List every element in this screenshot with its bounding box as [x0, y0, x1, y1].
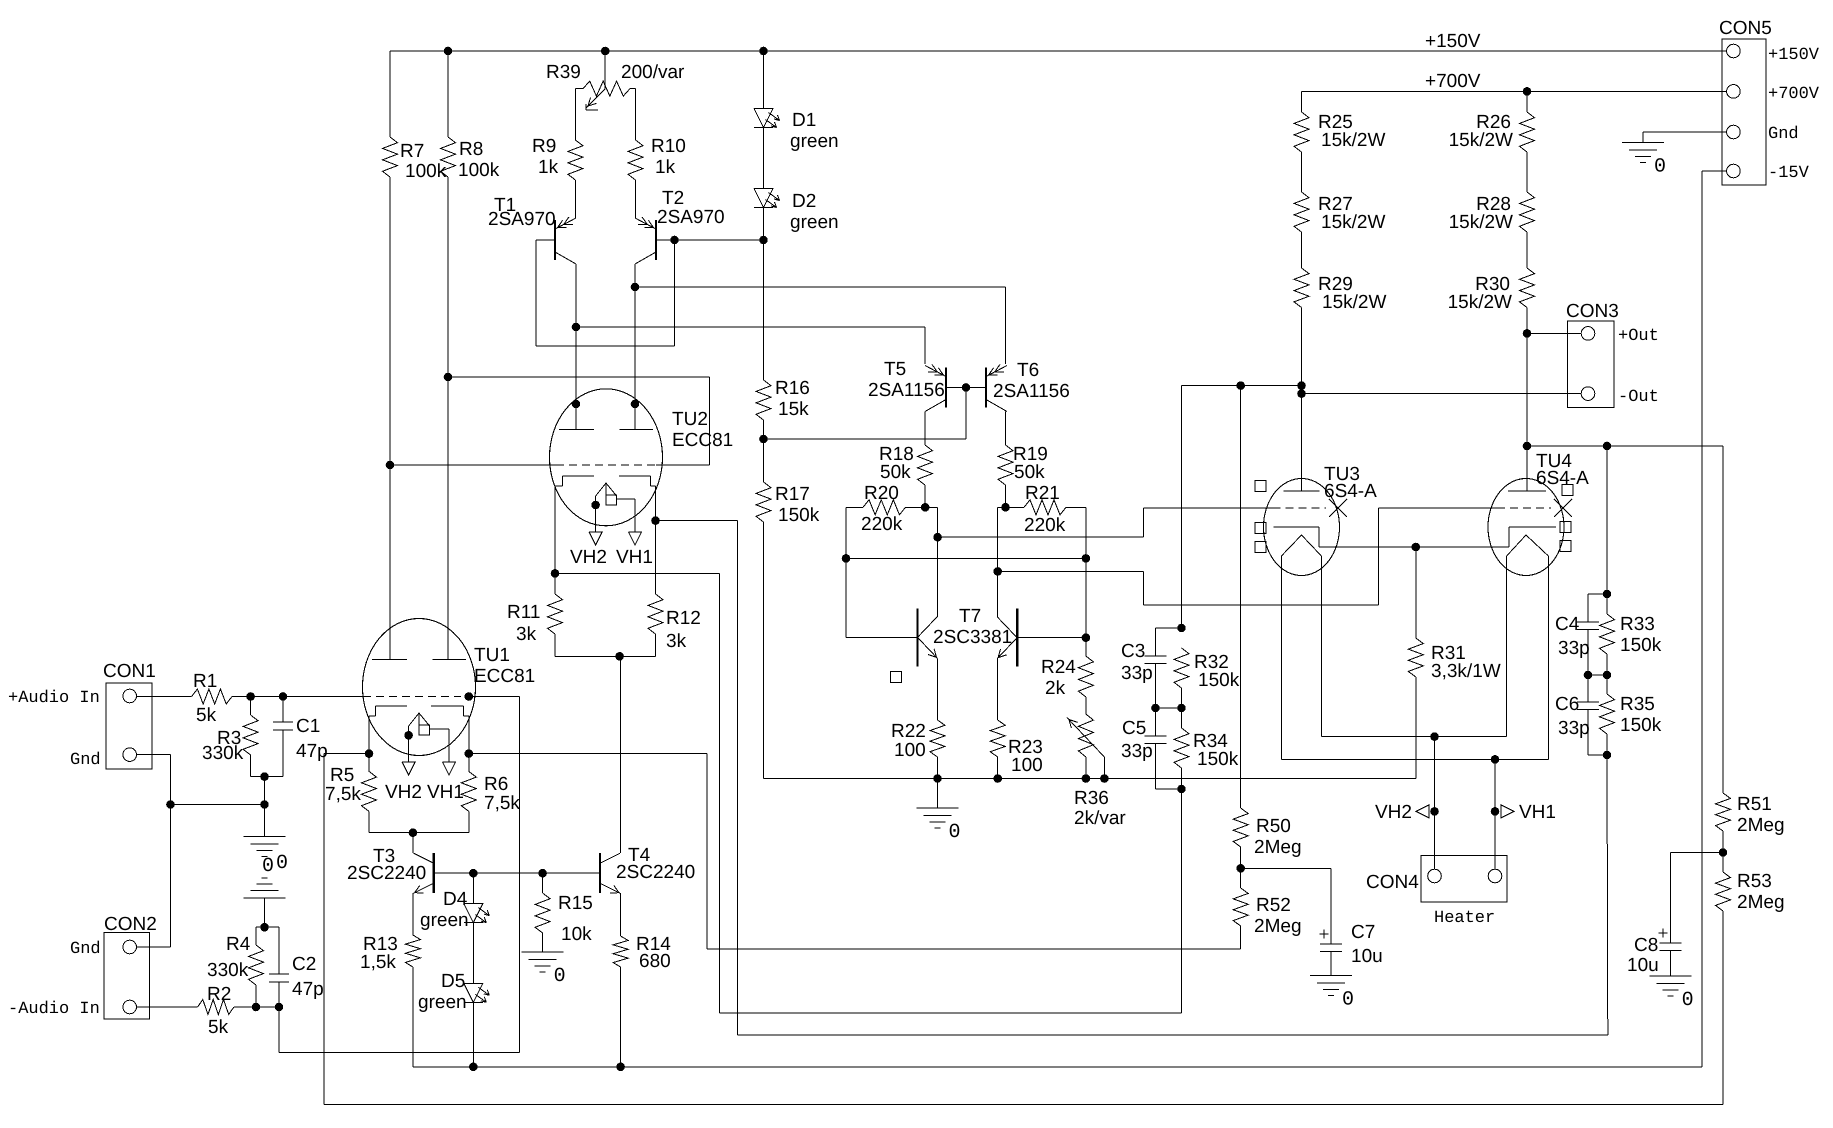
svg-text:VH1: VH1	[1519, 802, 1556, 823]
wire R50R52 to C7	[1241, 868, 1331, 944]
ground 0 C7	[1310, 976, 1354, 1012]
wire +Out	[1527, 332, 1581, 334]
wire heater TU3R to TU4L	[1321, 556, 1506, 737]
svg-text:-15V: -15V	[1768, 164, 1810, 183]
resistor R21	[1006, 483, 1086, 536]
svg-text:Heater: Heater	[1434, 909, 1495, 928]
wire T5 collector to R18	[924, 412, 926, 446]
svg-text:+700V: +700V	[1768, 85, 1820, 104]
svg-text:0: 0	[949, 821, 961, 844]
wire T7R col to TU4 grid	[998, 508, 1497, 605]
connector CON3	[1566, 301, 1619, 408]
svg-text:R39: R39	[546, 62, 581, 83]
node R3 top	[246, 692, 255, 701]
wire R17 to gnd rail	[763, 522, 765, 779]
wire TU2 cathode L to R11	[554, 486, 556, 573]
resistor R7	[383, 51, 447, 182]
node T3 collector tap	[409, 828, 418, 837]
svg-text:2Meg: 2Meg	[1254, 916, 1302, 937]
node LED chain T2 base	[759, 236, 768, 245]
node TU1 grid right	[465, 692, 474, 701]
resistor R16	[756, 378, 810, 420]
ground 0 CON5	[1622, 143, 1666, 179]
capacitor C2	[269, 927, 324, 1052]
svg-text:D5: D5	[441, 971, 465, 992]
svg-text:R35: R35	[1620, 694, 1655, 715]
svg-text:TU1: TU1	[474, 645, 510, 666]
node +150V R39 tap	[601, 47, 610, 56]
transistor T7 2SC3381 right half	[997, 609, 1017, 667]
node div mid cap R	[1584, 671, 1593, 680]
label +Out	[1618, 327, 1659, 346]
svg-text:0: 0	[262, 855, 274, 878]
resistor R36 2k/var	[1067, 714, 1126, 829]
svg-text:150k: 150k	[1197, 749, 1239, 770]
wire VH2 drop	[1434, 737, 1436, 870]
resistor R3	[202, 697, 258, 777]
label +Audio In	[8, 689, 100, 708]
connector CON4	[1366, 856, 1507, 902]
svg-text:R51: R51	[1737, 794, 1772, 815]
svg-text:5k: 5k	[208, 1017, 229, 1038]
svg-text:1,5k: 1,5k	[360, 952, 396, 973]
svg-text:C2: C2	[292, 954, 316, 975]
wire C2 to TU1 grid riser	[279, 697, 519, 1053]
svg-text:2Meg: 2Meg	[1737, 815, 1785, 836]
wire TU1 cathodeL to bottom bus	[324, 754, 1723, 1105]
tube TU1 heater	[409, 713, 430, 735]
resistor R53	[1716, 853, 1785, 1105]
node R4 bottom	[252, 1003, 261, 1012]
node TU2 plate L	[572, 400, 581, 409]
node R23 rail	[993, 774, 1002, 783]
node T1 col to T5	[572, 323, 581, 332]
node R14 neg rail	[616, 1063, 625, 1072]
svg-text:R15: R15	[558, 893, 593, 914]
wire R32 top node	[1181, 386, 1183, 628]
svg-text:15k/2W: 15k/2W	[1448, 292, 1512, 313]
wire R23 to rail	[997, 757, 999, 779]
transistor T5 2SA1156	[868, 359, 946, 412]
resistor R25	[1294, 91, 1385, 152]
wire R21R col down	[1085, 507, 1087, 656]
svg-text:150k: 150k	[1620, 635, 1662, 656]
transistor T4 2SC2240	[600, 845, 695, 893]
node R31 top	[1412, 543, 1421, 552]
wire R8 to TU1 plate	[447, 177, 449, 659]
tube TU2 heater	[596, 483, 617, 505]
svg-text:1k: 1k	[538, 157, 559, 178]
node C4 top tap	[1603, 442, 1612, 451]
svg-text:2k/var: 2k/var	[1074, 808, 1126, 829]
svg-text:D1: D1	[792, 110, 816, 131]
resistor R29	[1294, 232, 1386, 313]
svg-text:220k: 220k	[861, 514, 903, 535]
node divider top R	[1603, 590, 1612, 599]
wire R29 to TU3 plate	[1301, 308, 1303, 492]
svg-text:-Audio In: -Audio In	[8, 1000, 100, 1019]
node TU4 plate	[1523, 442, 1532, 451]
node R18 R20 junction	[921, 503, 930, 512]
svg-text:T6: T6	[1017, 360, 1039, 381]
wire T1col to T5 emitter	[576, 327, 925, 364]
svg-text:R20: R20	[864, 483, 899, 504]
resistor R13	[360, 934, 420, 973]
svg-text:2k: 2k	[1045, 678, 1066, 699]
svg-text:Gnd: Gnd	[70, 751, 101, 770]
node R50 top	[1236, 381, 1245, 390]
svg-text:+700V: +700V	[1425, 71, 1481, 92]
node gnd stub	[260, 800, 269, 809]
wire R16 R17	[763, 420, 765, 482]
node T7L collector tap	[933, 533, 942, 542]
transistor T1 2SA970	[488, 195, 576, 264]
wire R10 to T2 emitter	[635, 180, 637, 218]
tube TU2 grid	[390, 464, 710, 466]
pin VH1 marker	[1491, 802, 1556, 823]
svg-text:C5: C5	[1122, 718, 1146, 739]
svg-text:R11: R11	[507, 602, 540, 623]
svg-text:150k: 150k	[1620, 715, 1662, 736]
wire TU2 heater leads	[596, 496, 635, 532]
wire T4 collector	[620, 656, 622, 853]
diode D1 green LED	[754, 51, 839, 152]
svg-text:TU2: TU2	[672, 409, 708, 430]
svg-text:0: 0	[1654, 156, 1666, 179]
node T5T6 base	[962, 383, 971, 392]
resistor R15	[535, 873, 593, 952]
node div mid res R	[1603, 671, 1612, 680]
svg-text:680: 680	[639, 951, 671, 972]
node T4 collector junction	[615, 652, 624, 661]
pin VH1 arrow TU2	[616, 532, 653, 568]
node D4 top	[469, 869, 478, 878]
node div mid cap L	[1151, 704, 1160, 713]
wire R51 top	[1722, 446, 1724, 793]
svg-text:C7: C7	[1351, 922, 1375, 943]
transistor T7 2SC3381 left half	[918, 606, 1013, 666]
tube TU4 grid	[1497, 507, 1551, 509]
tube TU4 cathode	[1509, 527, 1556, 547]
tube TU4 heater	[1507, 535, 1549, 556]
svg-text:15k/2W: 15k/2W	[1321, 130, 1385, 151]
svg-text:R21: R21	[1025, 483, 1060, 504]
tube TU3 cathode	[1274, 527, 1320, 547]
node heater VH1 tap	[1491, 755, 1500, 764]
node CON gnd join	[166, 800, 175, 809]
transistor T2 2SA970	[635, 188, 725, 264]
svg-text:2SC2240: 2SC2240	[616, 862, 695, 883]
resistor R32	[1174, 648, 1240, 708]
pin VH1 arrow TU1	[427, 762, 464, 803]
svg-text:0: 0	[1342, 989, 1354, 1012]
tube TU1 cathodes	[369, 706, 469, 716]
tube TU1 plates	[372, 658, 466, 660]
tube TU2 envelope	[550, 389, 663, 526]
ground 0 main rail	[917, 779, 961, 845]
label CON5 +150V	[1768, 46, 1820, 65]
resistor R34	[1174, 708, 1239, 789]
tube TU4 grid nc X	[1554, 499, 1572, 517]
wire R12 top to fb	[656, 521, 1608, 1035]
node TU2 plate R	[631, 400, 640, 409]
label CON2 Gnd	[70, 940, 101, 959]
resistor R35	[1600, 675, 1662, 755]
resistor R26	[1449, 91, 1535, 152]
pin marker square T7	[891, 672, 902, 683]
tube TU1 envelope	[363, 619, 476, 756]
svg-text:CON3: CON3	[1566, 301, 1619, 322]
svg-text:R1: R1	[193, 671, 217, 692]
label -Audio In	[8, 1000, 100, 1019]
svg-text:47p: 47p	[296, 741, 328, 762]
svg-text:ECC81: ECC81	[474, 666, 535, 687]
svg-text:10u: 10u	[1351, 946, 1383, 967]
svg-text:330k: 330k	[202, 743, 244, 764]
resistor R8	[441, 51, 500, 181]
svg-text:150k: 150k	[1198, 670, 1240, 691]
label -Out	[1618, 388, 1659, 407]
wire T2col to T6 emitter	[635, 287, 1006, 364]
svg-text:ECC81: ECC81	[672, 430, 733, 451]
svg-text:R53: R53	[1737, 871, 1772, 892]
ground 0 inverted	[244, 852, 289, 898]
tube TU3 plate	[1284, 490, 1320, 492]
wire R7 to TU1 plate	[389, 177, 391, 659]
svg-text:R50: R50	[1256, 816, 1291, 837]
svg-text:2SA1156: 2SA1156	[868, 380, 945, 401]
resistor R9	[532, 136, 583, 180]
resistor R19	[998, 444, 1048, 485]
svg-text:R17: R17	[775, 484, 810, 505]
wire R1 to TU1 grid	[232, 696, 363, 698]
wire VH1 drop	[1494, 759, 1496, 869]
svg-text:R12: R12	[666, 608, 701, 629]
label +700V	[1425, 71, 1481, 92]
svg-text:+150V: +150V	[1768, 46, 1820, 65]
node D5 neg rail	[469, 1063, 478, 1072]
wire T6 collector to R19	[1005, 412, 1007, 446]
svg-text:VH1: VH1	[616, 547, 653, 568]
svg-text:R9: R9	[532, 136, 556, 157]
pin VH2 arrow TU1	[385, 762, 422, 803]
tube TU4 envelope	[1488, 479, 1564, 576]
wire CON5 gnd	[1643, 132, 1727, 143]
wire T7L col slant joins	[937, 616, 939, 618]
potentiometer R39 200/var	[546, 51, 685, 110]
svg-text:3,3k/1W: 3,3k/1W	[1431, 661, 1501, 682]
label CON1 Gnd	[70, 751, 101, 770]
svg-text:C1: C1	[296, 716, 320, 737]
svg-text:green: green	[790, 131, 839, 152]
svg-text:15k: 15k	[778, 399, 809, 420]
wire R39 right to R10	[635, 89, 637, 140]
wire R36 to rail	[1085, 757, 1087, 779]
svg-text:50k: 50k	[1014, 462, 1045, 483]
wire C4R33 top	[1606, 446, 1608, 594]
tube TU3 heater	[1281, 535, 1321, 556]
svg-text:100: 100	[1011, 755, 1043, 776]
resistor R14	[613, 934, 671, 972]
resistor R10	[628, 136, 686, 180]
node TU1 cathode R	[465, 749, 474, 758]
node R16 R17 junction	[759, 435, 768, 444]
wire R4C2 top	[256, 926, 279, 928]
connector CON2	[104, 914, 157, 1019]
svg-text:2Meg: 2Meg	[1737, 892, 1785, 913]
resistor R11	[507, 573, 563, 656]
capacitor C1	[273, 697, 328, 777]
svg-text:green: green	[418, 992, 467, 1013]
svg-text:+Out: +Out	[1618, 327, 1659, 346]
wire R11R12 bottom	[555, 655, 656, 657]
capacitor C5	[1121, 708, 1167, 789]
node TU2 heater	[591, 501, 600, 510]
svg-text:C3: C3	[1121, 641, 1145, 662]
svg-text:15k/2W: 15k/2W	[1322, 292, 1386, 313]
tube TU1 grid	[283, 696, 519, 698]
svg-text:+150V: +150V	[1425, 31, 1481, 52]
wire T4 emitter to R14	[620, 893, 622, 936]
resistor R22	[891, 720, 945, 761]
svg-text:R6: R6	[484, 774, 508, 795]
node TU1 cathode L	[365, 749, 374, 758]
node R4C2 top	[260, 923, 269, 932]
svg-text:47p: 47p	[292, 979, 324, 1000]
node R12 top	[651, 516, 660, 525]
capacitor C7 10u	[1320, 922, 1383, 976]
wire heater TU3L to TU4R	[1281, 556, 1548, 759]
svg-text:7,5k: 7,5k	[484, 793, 520, 814]
wire TU1 cathode R	[468, 716, 470, 754]
wire CON2 in to R2	[137, 1006, 198, 1008]
resistor R12	[648, 521, 701, 657]
svg-text:VH2: VH2	[385, 782, 422, 803]
wire R20 left to T7 base	[845, 507, 847, 637]
diode D4 green LED	[420, 873, 489, 931]
wire +150V rail	[390, 50, 1726, 52]
svg-text:5k: 5k	[196, 705, 217, 726]
svg-text:330k: 330k	[207, 960, 249, 981]
label +150V	[1425, 31, 1481, 52]
wire D5 to neg rail	[472, 1002, 474, 1067]
svg-text:100k: 100k	[458, 160, 500, 181]
svg-text:3k: 3k	[516, 624, 537, 645]
label Heater	[1434, 909, 1495, 928]
pin squares TU4	[1560, 485, 1573, 552]
wire R30 to TU4 plate	[1526, 308, 1528, 447]
svg-text:R24: R24	[1041, 657, 1076, 678]
wire T1 base	[536, 239, 555, 241]
svg-text:100: 100	[894, 740, 926, 761]
svg-text:0: 0	[1682, 989, 1694, 1012]
wire T7L emitter to R22	[937, 658, 939, 720]
wire divider mid R	[1588, 674, 1607, 676]
wire T3 emitter to R13	[412, 893, 414, 935]
label TU2	[672, 409, 733, 451]
svg-text:+Audio In: +Audio In	[8, 689, 100, 708]
transistor T6 2SA1156	[986, 360, 1070, 412]
svg-text:CON4: CON4	[1366, 872, 1419, 893]
diode D5 green LED	[418, 971, 489, 1013]
capacitor C6	[1555, 675, 1599, 755]
wire R11 top to fb	[555, 573, 1182, 1013]
capacitor C4	[1555, 594, 1607, 675]
node T7R collector tap	[993, 567, 1002, 576]
label CON5 +700V	[1768, 85, 1820, 104]
wire TU3 cathode to R31	[1319, 546, 1509, 548]
svg-text:R5: R5	[330, 765, 354, 786]
wire R19R21 jog to T7R collector	[998, 507, 1006, 617]
svg-text:200/var: 200/var	[621, 62, 685, 83]
wire R9 to T1 emitter	[574, 180, 576, 218]
svg-text:150k: 150k	[778, 505, 820, 526]
wire CON2 gnd lead	[137, 946, 171, 948]
wire R19 to node	[1005, 485, 1007, 507]
wire divider bottom R	[1588, 755, 1608, 1035]
resistor R28	[1449, 152, 1535, 233]
svg-text:2Meg: 2Meg	[1254, 837, 1302, 858]
wire inv gnd to R4C2	[264, 898, 266, 927]
node heater VH2 tap	[1430, 732, 1439, 741]
wire R22 to rail	[937, 757, 939, 779]
wire T3 collector	[412, 833, 414, 854]
pin VH2 marker	[1375, 802, 1439, 823]
svg-text:VH2: VH2	[570, 547, 607, 568]
svg-text:CON2: CON2	[104, 914, 157, 935]
svg-text:T2: T2	[662, 188, 684, 209]
wire CON1 in to R1	[137, 696, 192, 698]
node R36 wiper rail	[1100, 774, 1109, 783]
label TU3	[1324, 464, 1377, 502]
resistor R1	[192, 671, 232, 726]
wire gnd rail	[764, 778, 1416, 780]
label CON5 -15V	[1768, 164, 1810, 183]
tube TU3 grid	[1273, 507, 1327, 509]
node R11 top	[551, 569, 560, 578]
tube TU4 plate	[1508, 446, 1546, 491]
resistor R52	[1233, 868, 1301, 949]
wire -Out	[1302, 393, 1582, 395]
svg-text:2SA970: 2SA970	[488, 209, 556, 230]
svg-text:Gnd: Gnd	[70, 940, 101, 959]
wire D4 to D5	[472, 923, 474, 984]
wire TU4 plate node right	[1527, 445, 1723, 447]
resistor R51	[1716, 793, 1785, 853]
wire R16R17 to T5T6 base	[764, 388, 967, 440]
capacitor C3	[1121, 628, 1182, 708]
resistor R50	[1233, 808, 1301, 868]
tube TU3 envelope	[1264, 479, 1340, 576]
node +150V D1 tap	[759, 47, 768, 56]
resistor R31	[1408, 547, 1500, 779]
wire TU1 heater leads	[409, 726, 449, 762]
wire D2 to R16	[763, 208, 765, 380]
svg-text:2SA1156: 2SA1156	[993, 381, 1070, 402]
node T2 col to T6	[631, 283, 640, 292]
svg-text:2SC3381: 2SC3381	[933, 627, 1012, 648]
resistor R2	[198, 984, 234, 1038]
svg-text:R4: R4	[226, 934, 251, 955]
svg-text:Gnd: Gnd	[1768, 125, 1799, 144]
wire T5T6 base	[946, 387, 986, 389]
svg-text:R2: R2	[207, 984, 231, 1005]
wire CON5 -15V	[1702, 171, 1727, 1067]
wire T1 collector down	[575, 264, 577, 429]
label CON5 Gnd	[1768, 125, 1799, 144]
svg-text:15k/2W: 15k/2W	[1449, 130, 1513, 151]
svg-text:7,5k: 7,5k	[325, 784, 361, 805]
